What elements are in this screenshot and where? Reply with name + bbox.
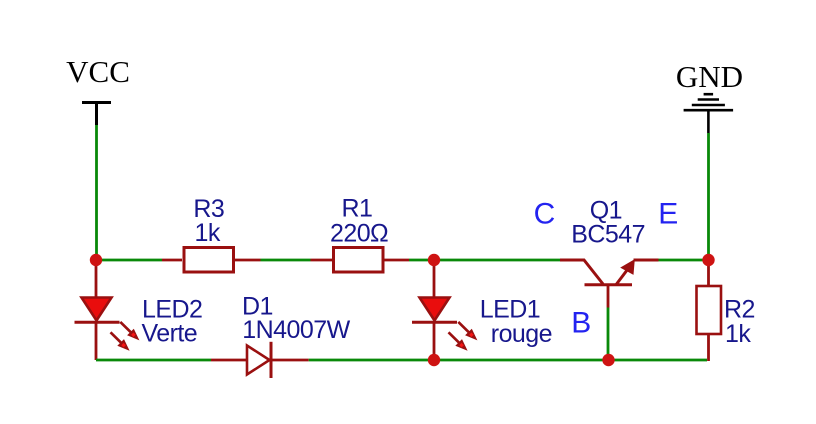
svg-text:GND: GND bbox=[676, 59, 743, 94]
diode D1 cathode lead bbox=[271, 359, 309, 362]
resistor R1 body bbox=[334, 248, 384, 273]
wire top from node A to R3 bbox=[96, 259, 162, 262]
svg-text:E: E bbox=[658, 197, 678, 230]
junction node E bbox=[702, 254, 714, 266]
wire GND vertical bbox=[707, 133, 710, 260]
svg-text:220Ω: 220Ω bbox=[330, 220, 388, 248]
resistor R2 top lead bbox=[707, 260, 710, 285]
svg-text:rouge: rouge bbox=[491, 320, 552, 348]
resistor R1 left lead bbox=[311, 259, 333, 262]
wire node B to Q1 collector bbox=[434, 259, 560, 262]
LED1 light arrow 2 bbox=[449, 332, 468, 351]
wire Q1 base down bbox=[607, 308, 610, 361]
junction node C bbox=[428, 354, 440, 366]
svg-text:B: B bbox=[571, 307, 591, 340]
ground symbol bbox=[684, 94, 734, 133]
svg-text:VCC: VCC bbox=[66, 54, 130, 89]
LED1 cathode lead bbox=[433, 322, 436, 360]
resistor R2 bottom lead bbox=[707, 334, 710, 361]
LED2 anode lead bbox=[95, 260, 98, 297]
wire node C to base junction bbox=[434, 359, 608, 362]
wire D1 to node C bbox=[309, 359, 434, 362]
junction node D bbox=[602, 354, 614, 366]
diode D1 cathode bar bbox=[270, 342, 273, 378]
wire bottom left from LED2 bbox=[96, 359, 211, 362]
diode D1 triangle bbox=[247, 346, 270, 375]
LED1 light arrow 1 bbox=[458, 322, 477, 341]
svg-text:C: C bbox=[534, 197, 556, 230]
resistor R3 body bbox=[184, 248, 234, 273]
svg-text:R1: R1 bbox=[341, 195, 372, 223]
junction node A bbox=[90, 254, 102, 266]
LED2 light arrow 1 bbox=[120, 322, 139, 341]
wire R3 to R1 bbox=[261, 259, 311, 262]
LED2 cathode lead bbox=[95, 322, 98, 360]
wire VCC vertical bbox=[95, 125, 98, 260]
transistor Q1 base lead bbox=[607, 285, 610, 308]
wire R1 to node B bbox=[409, 259, 434, 262]
resistor R3 left lead bbox=[162, 259, 182, 262]
svg-text:Verte: Verte bbox=[142, 320, 198, 348]
power flag VCC bar symbol bbox=[82, 103, 111, 126]
LED1 anode lead bbox=[433, 260, 436, 297]
transistor Q1 collector lead bbox=[560, 260, 603, 284]
wire Q1 emitter to node E bbox=[659, 259, 709, 262]
resistor R1 right lead bbox=[384, 259, 409, 262]
junction node B bbox=[428, 254, 440, 266]
svg-text:1k: 1k bbox=[725, 320, 751, 348]
svg-text:BC547: BC547 bbox=[571, 221, 645, 249]
LED2 cathode bar bbox=[75, 321, 120, 324]
resistor R3 right lead bbox=[235, 259, 261, 262]
svg-text:1N4007W: 1N4007W bbox=[242, 316, 350, 344]
transistor Q1 emitter lead with arrow bbox=[616, 259, 658, 284]
resistor R2 body bbox=[697, 286, 722, 334]
LED2 light arrow 2 bbox=[111, 332, 130, 351]
diode D1 anode lead bbox=[211, 359, 246, 362]
LED1 triangle bbox=[420, 298, 450, 321]
LED1 cathode bar bbox=[412, 321, 457, 324]
LED2 triangle bbox=[82, 298, 112, 321]
transistor Q1 base bar bbox=[585, 283, 633, 286]
wire base junction to R2 bbox=[608, 359, 707, 362]
svg-text:1k: 1k bbox=[195, 219, 221, 247]
